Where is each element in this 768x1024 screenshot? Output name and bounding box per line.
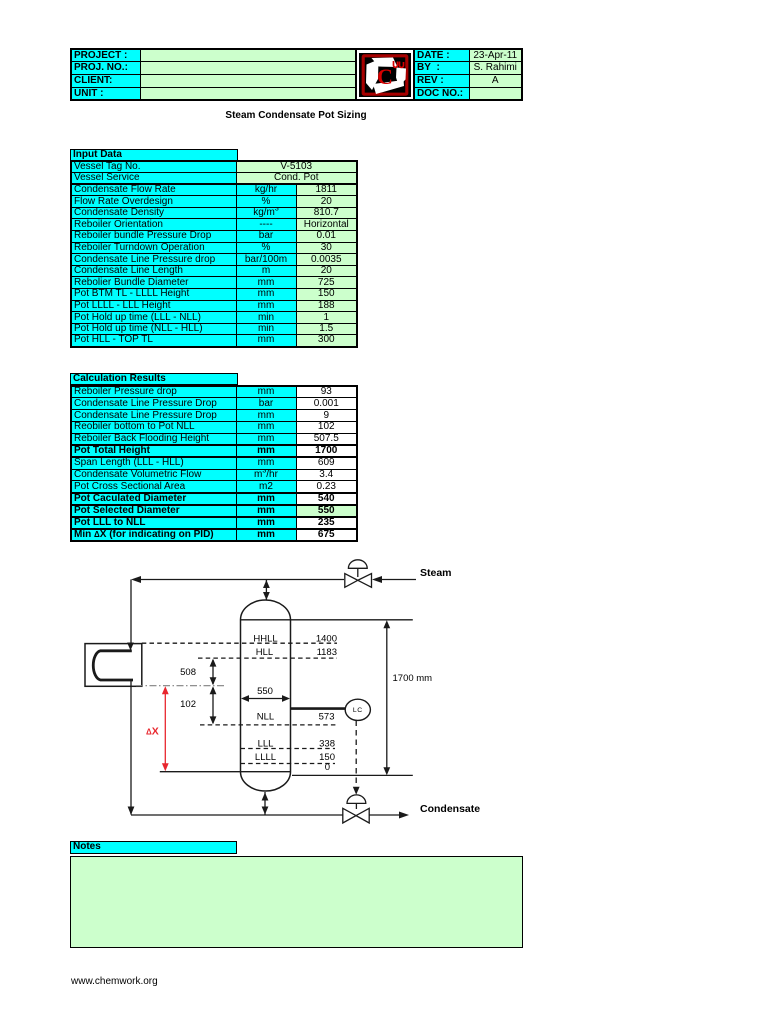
svg-text:508: 508 — [180, 667, 196, 678]
svg-text:HLL: HLL — [256, 647, 273, 658]
svg-text:LLLL: LLLL — [255, 752, 276, 763]
svg-text:LLL: LLL — [258, 739, 274, 750]
svg-text:ΔX: ΔX — [146, 726, 159, 738]
svg-text:338: 338 — [319, 739, 335, 750]
svg-text:102: 102 — [180, 699, 196, 710]
svg-text:NLL: NLL — [257, 712, 274, 723]
svg-text:0: 0 — [325, 762, 330, 773]
svg-text:550: 550 — [257, 686, 273, 697]
svg-text:1183: 1183 — [317, 647, 337, 658]
svg-text:Steam: Steam — [420, 567, 452, 579]
svg-text:1400: 1400 — [316, 634, 337, 645]
svg-text:573: 573 — [319, 712, 335, 723]
svg-text:LC: LC — [353, 707, 363, 714]
svg-text:1700 mm: 1700 mm — [393, 673, 433, 684]
svg-text:HHLL: HHLL — [253, 634, 277, 645]
svg-text:Condensate: Condensate — [420, 803, 480, 815]
